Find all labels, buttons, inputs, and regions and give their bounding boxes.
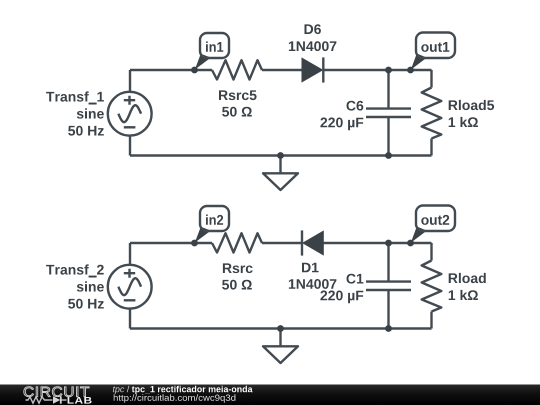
label D6 name/value (above diode) xyxy=(289,24,337,51)
footer bar xyxy=(0,385,540,405)
label Transf_2 name/value xyxy=(46,264,104,308)
wire right vertical into Rload5 xyxy=(430,70,432,156)
diode D6 (anode at left) xyxy=(302,57,323,82)
wire top rail left segment (net in2) xyxy=(130,242,212,244)
capacitor C6 xyxy=(366,70,411,156)
wire right vertical into Rload xyxy=(430,243,432,329)
label C1 name/value xyxy=(320,274,363,304)
ground symbol xyxy=(263,156,298,191)
resistor Rsrc5 xyxy=(212,60,262,79)
wire left vertical to source Transf_2 xyxy=(129,243,131,329)
voltage source Transf_1 (sine symbol) xyxy=(108,92,152,136)
wire bottom rail (ground net) xyxy=(130,327,432,329)
footer title line xyxy=(113,386,253,394)
junction dot at node out2 xyxy=(407,240,414,247)
resistor Rload5 xyxy=(422,88,442,139)
node flag in1 xyxy=(195,33,229,70)
logo diode symbol xyxy=(49,396,67,403)
label Rload name/value xyxy=(449,273,486,300)
diode D1 (cathode at left) xyxy=(302,230,323,255)
junction dot ground xyxy=(277,152,284,159)
ground symbol xyxy=(263,329,298,364)
logo resistor squiggle xyxy=(26,397,49,403)
label Transf_1 name/value xyxy=(46,91,104,135)
junction dot at node in1 xyxy=(191,67,198,74)
junction dot at node in2 xyxy=(191,240,198,247)
label D1 name/value (below diode) xyxy=(289,263,337,289)
voltage source Transf_2 (sine symbol) xyxy=(108,265,152,309)
wire top rail left segment (net in1) xyxy=(130,69,212,71)
resistor Rsrc xyxy=(212,233,262,252)
label Rsrc5 name/value xyxy=(219,90,257,116)
wire diode to node out2 xyxy=(323,242,431,244)
node flag out2 xyxy=(411,206,455,243)
resistor Rload xyxy=(422,261,442,312)
node flag in2 xyxy=(195,206,229,243)
CircuitLab logo wordmark CIRCUIT xyxy=(24,387,89,397)
footer url line xyxy=(114,394,236,402)
junction dot ground xyxy=(277,325,284,332)
junction dot capacitor bottom xyxy=(385,152,392,159)
label Rload5 name/value xyxy=(449,100,494,127)
junction dot capacitor top xyxy=(385,67,392,74)
junction dot capacitor top xyxy=(385,240,392,247)
capacitor C1 xyxy=(366,243,411,329)
label Rsrc name/value xyxy=(222,263,253,289)
junction dot at node out1 xyxy=(407,67,414,74)
wire resistor to diode xyxy=(262,69,302,71)
wire resistor to diode xyxy=(262,242,302,244)
junction dot capacitor bottom xyxy=(385,325,392,332)
logo LAB text xyxy=(68,397,92,404)
wire left vertical to source Transf_1 xyxy=(129,70,131,156)
node flag out1 xyxy=(411,33,455,70)
wire diode to node out1 xyxy=(323,69,431,71)
wire bottom rail (ground net) xyxy=(130,154,432,156)
label C6 name/value xyxy=(320,101,363,131)
